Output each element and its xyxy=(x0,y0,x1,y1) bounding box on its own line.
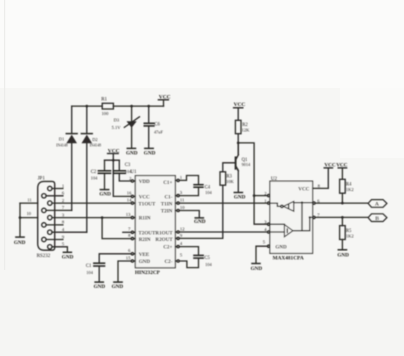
svg-text:GND: GND xyxy=(144,151,156,157)
wire pin5 to ground xyxy=(52,247,67,252)
node junction TXD branch xyxy=(101,216,104,219)
svg-text:R1: R1 xyxy=(101,98,107,103)
transceiver U2 MAX481CPA body xyxy=(270,177,313,261)
svg-text:47uF: 47uF xyxy=(154,130,163,135)
svg-text:B: B xyxy=(375,216,379,222)
svg-text:D1: D1 xyxy=(59,137,64,142)
svg-text:MAX481CPA: MAX481CPA xyxy=(273,255,304,261)
svg-text:12: 12 xyxy=(180,227,185,232)
svg-text:VCC: VCC xyxy=(336,162,347,168)
svg-text:D2: D2 xyxy=(92,137,97,142)
svg-text:GND: GND xyxy=(234,194,246,200)
ground under C1 xyxy=(94,282,106,290)
faint page edge line xyxy=(4,0,5,270)
svg-text:10K: 10K xyxy=(226,179,235,184)
svg-text:T1OUT: T1OUT xyxy=(138,201,156,207)
svg-text:104: 104 xyxy=(205,262,212,267)
wire pin2 to U1 T1OUT xyxy=(52,202,131,204)
svg-text:GND: GND xyxy=(94,284,106,290)
pin 3 xyxy=(48,215,52,219)
svg-text:VDD: VDD xyxy=(139,179,150,185)
resistor R4 1K2 xyxy=(340,179,354,193)
svg-text:VCC: VCC xyxy=(298,187,309,193)
svg-text:VCC: VCC xyxy=(139,195,150,201)
svg-text:RS232: RS232 xyxy=(37,254,51,259)
wire pin9 stub xyxy=(46,239,63,241)
svg-text:GND: GND xyxy=(99,192,111,198)
port B xyxy=(368,214,387,222)
node junction collector branch xyxy=(237,142,240,145)
svg-text:R1IN: R1IN xyxy=(139,216,151,222)
wire U1 R2OUT pin9 to R3 xyxy=(179,185,223,238)
svg-text:GND: GND xyxy=(14,240,26,246)
connector JP1 DB9 RS232 xyxy=(37,176,55,259)
resistor R1 xyxy=(101,98,113,116)
ground left of DB9 xyxy=(14,237,26,246)
svg-text:A: A xyxy=(375,202,379,208)
ground under R5 xyxy=(337,250,349,259)
svg-text:C1: C1 xyxy=(86,264,92,269)
wire A line xyxy=(315,202,368,204)
ground under Q1 xyxy=(234,193,246,201)
wire C1 to ground xyxy=(98,266,100,282)
capacitor C5 104 xyxy=(194,255,212,266)
wire U1 pin1 to C4 xyxy=(179,176,198,185)
resistor R3 10K xyxy=(220,172,235,185)
wire U1 GND pin15 to ground xyxy=(118,261,131,282)
svg-text:5.1V: 5.1V xyxy=(112,125,122,130)
pin 8 xyxy=(42,223,46,227)
wire Q1 emitter to ground xyxy=(237,171,239,193)
svg-text:IN4148: IN4148 xyxy=(90,143,101,147)
transistor Q1 9014 xyxy=(236,155,251,171)
node junction left gnd xyxy=(19,216,22,219)
wire top power rail left xyxy=(72,105,103,107)
wire to U2 pin2 xyxy=(254,195,267,197)
svg-text:13: 13 xyxy=(126,212,131,217)
ground under U2 pin5 xyxy=(251,264,263,272)
wire VCC to U1 pin16 xyxy=(113,160,131,196)
U2 receiver triangle xyxy=(270,201,294,211)
ground under D3 xyxy=(126,148,138,156)
pin 2 xyxy=(48,201,52,205)
wire pin6 stub xyxy=(46,195,63,197)
wire R3 to Q1 base xyxy=(223,163,236,172)
wire R4 to A line xyxy=(341,193,343,203)
svg-text:T2OUT: T2OUT xyxy=(138,230,156,236)
svg-text:C1-: C1- xyxy=(164,195,172,201)
U2 pin circles right xyxy=(313,202,315,219)
svg-text:GND: GND xyxy=(275,245,287,251)
wire collector to U2 RE/DE xyxy=(238,143,254,196)
capacitor C2 104 xyxy=(91,160,111,189)
wire left net 11 xyxy=(20,202,38,204)
diode D2 IN4148 xyxy=(81,106,101,232)
wire U1 pin4 to C5 xyxy=(179,247,198,256)
svg-text:C1+: C1+ xyxy=(163,180,172,186)
pin number labels xyxy=(62,183,65,246)
svg-text:VEE: VEE xyxy=(139,252,150,258)
wire U1 R1OUT pin12 to U2 DI pin4 xyxy=(179,231,267,233)
svg-text:11: 11 xyxy=(180,198,185,203)
resistor R5 1K2 xyxy=(340,217,354,249)
wire C2/C3 top tee xyxy=(105,159,120,161)
svg-text:11: 11 xyxy=(27,198,31,203)
U1 pin stubs and circles right xyxy=(175,179,179,262)
ground under U1 pin15 xyxy=(112,282,124,290)
svg-text:U2: U2 xyxy=(271,177,278,182)
U2 driver triangle xyxy=(270,224,293,237)
diode D1 IN4148 xyxy=(56,106,77,210)
op-amp U1 HIN232CP body xyxy=(130,170,175,276)
node junction U2 pin2 xyxy=(253,194,256,197)
wire branch to U1 R2IN xyxy=(102,218,131,239)
pin 1 xyxy=(48,186,52,190)
svg-text:GND: GND xyxy=(139,259,151,265)
svg-text:GND: GND xyxy=(194,219,206,225)
node junction D2-rail xyxy=(85,105,88,108)
wire B line xyxy=(315,216,368,218)
U1 pin numbers xyxy=(126,175,185,261)
svg-text:104: 104 xyxy=(205,190,212,195)
wire U2 pin5 to ground xyxy=(256,246,268,263)
capacitor C4 104 xyxy=(194,185,212,196)
power VCC mid (above C2/C3) xyxy=(108,149,120,161)
svg-text:HIN232CP: HIN232CP xyxy=(135,270,161,276)
wire down to U2 pin3 xyxy=(254,196,267,225)
svg-text:VCC: VCC xyxy=(324,162,335,168)
U2 pin circles left xyxy=(268,194,270,247)
svg-text:C2+: C2+ xyxy=(163,245,172,251)
pin 9 xyxy=(42,237,46,241)
node junction D3-rail xyxy=(130,105,133,108)
svg-text:100: 100 xyxy=(102,111,110,116)
resistor R2 12K xyxy=(235,120,250,133)
svg-text:9014: 9014 xyxy=(242,162,251,167)
node junction R5-B xyxy=(341,216,344,219)
svg-text:R1OUT: R1OUT xyxy=(155,230,173,236)
wire pin1 stub xyxy=(52,188,63,190)
svg-text:C2-: C2- xyxy=(164,259,172,265)
wire left vertical to gnd xyxy=(19,203,21,237)
pin 6 xyxy=(42,194,46,198)
node junction R4-A xyxy=(341,202,344,205)
svg-text:GND: GND xyxy=(251,266,263,272)
zener diode D3 5.1V xyxy=(112,106,140,148)
U2 pin numbers xyxy=(263,184,321,245)
capacitor C3 104 xyxy=(113,160,132,181)
svg-text:GND: GND xyxy=(126,151,138,157)
wire R2 to Q1 collector xyxy=(237,134,239,155)
ground DB9 pin5 xyxy=(62,252,74,260)
svg-text:104: 104 xyxy=(86,270,93,275)
svg-text:JP1: JP1 xyxy=(38,176,46,181)
capacitor C1 104 xyxy=(86,263,105,275)
U2 interior wires xyxy=(293,201,313,230)
power VCC top xyxy=(158,94,170,106)
ground under C6 xyxy=(144,148,156,156)
svg-text:GND: GND xyxy=(112,284,124,290)
pin 4 xyxy=(48,230,52,234)
pin 7 xyxy=(42,208,46,212)
power VCC above R2 xyxy=(234,102,246,120)
wire U1 T1IN pin11 to U2 RO pin1 xyxy=(179,202,267,204)
wire C4 to U1 pin3 xyxy=(179,187,198,195)
svg-text:U1: U1 xyxy=(130,170,137,175)
capacitor C6 47uF xyxy=(144,106,163,148)
svg-text:12K: 12K xyxy=(242,128,251,133)
U1 pin stubs and circles left xyxy=(131,180,135,262)
wire pin7 to D1 xyxy=(46,209,72,211)
ground under C2 xyxy=(99,190,111,198)
ground under T2IN xyxy=(194,218,206,225)
svg-text:16: 16 xyxy=(127,191,132,196)
svg-text:C2: C2 xyxy=(91,170,97,175)
power VCC at U2 pin8 xyxy=(324,162,336,168)
svg-text:IN4148: IN4148 xyxy=(56,144,67,148)
node junction VCC-C2C3 xyxy=(112,159,115,162)
svg-text:T2IN: T2IN xyxy=(161,209,173,215)
svg-text:1K2: 1K2 xyxy=(346,234,354,239)
svg-text:GND: GND xyxy=(62,255,74,261)
wire pin4 to D2 xyxy=(52,231,87,233)
svg-text:104: 104 xyxy=(91,175,98,180)
svg-text:VCC: VCC xyxy=(234,102,246,108)
wire Q1 collector up xyxy=(237,143,239,155)
svg-text:T1IN: T1IN xyxy=(161,201,173,207)
port A xyxy=(368,200,387,208)
svg-text:VCC: VCC xyxy=(159,94,171,100)
wire U1 pin10 T2IN to gnd xyxy=(179,211,199,218)
wire pin8 stub xyxy=(46,224,63,226)
U1 interior pin names xyxy=(138,179,173,265)
wire U2 pin8 to VCC xyxy=(313,168,329,188)
wire pin3 to U1 R1IN xyxy=(52,217,131,219)
svg-text:15: 15 xyxy=(126,255,131,260)
wire U1 VEE pin6 to C1 xyxy=(99,254,131,263)
svg-text:R2IN: R2IN xyxy=(139,237,151,243)
svg-text:C5: C5 xyxy=(204,256,210,261)
pin 5 xyxy=(48,245,52,249)
svg-text:D3: D3 xyxy=(114,118,120,123)
power VCC above R4 xyxy=(336,162,347,179)
svg-text:C3: C3 xyxy=(125,163,131,168)
svg-text:1K2: 1K2 xyxy=(346,187,354,192)
wire C5 to U1 pin5 xyxy=(179,258,198,267)
wire U1 T2OUT pin7 stub xyxy=(123,231,132,233)
svg-text:10: 10 xyxy=(180,205,185,210)
svg-text:GND: GND xyxy=(337,253,349,259)
wire left net 10 xyxy=(20,217,38,219)
svg-text:C6: C6 xyxy=(154,123,160,128)
svg-text:R2OUT: R2OUT xyxy=(155,237,173,243)
wire top power rail right xyxy=(113,105,163,107)
node junction C6-rail xyxy=(147,105,150,108)
